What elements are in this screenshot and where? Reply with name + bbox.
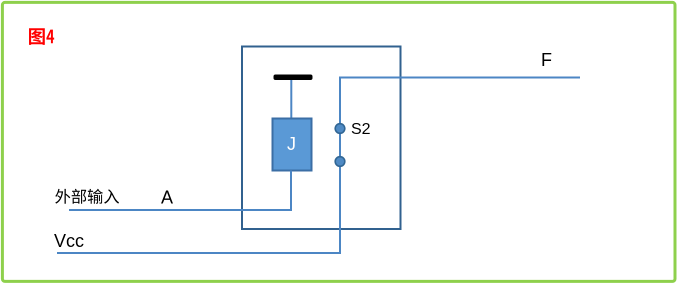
svg-text:Vcc: Vcc bbox=[54, 231, 84, 251]
switch S2 contact top bbox=[335, 124, 345, 134]
switch S2 contact bottom bbox=[335, 157, 345, 167]
wire contact bar to coil J bbox=[290, 80, 292, 119]
wire net Vcc: Vcc line to switch bbox=[57, 162, 340, 254]
relay unit enclosure box bbox=[242, 47, 401, 230]
wire net A: input line to coil J bbox=[69, 171, 291, 211]
wire between switch contacts bbox=[339, 129, 341, 162]
svg-text:F: F bbox=[541, 50, 552, 70]
label S2 bbox=[351, 121, 371, 138]
svg-text:A: A bbox=[161, 188, 173, 208]
label 外部输入 bbox=[55, 189, 119, 204]
label 图4 bbox=[29, 28, 54, 45]
wire net F: switch to output F bbox=[340, 78, 580, 129]
svg-text:S2: S2 bbox=[351, 121, 371, 138]
relay coil J bbox=[273, 119, 312, 171]
svg-text:J: J bbox=[287, 134, 296, 154]
node A bbox=[161, 188, 173, 208]
node F bbox=[541, 50, 552, 70]
node Vcc bbox=[54, 231, 84, 251]
relay contact bar bbox=[274, 75, 313, 81]
